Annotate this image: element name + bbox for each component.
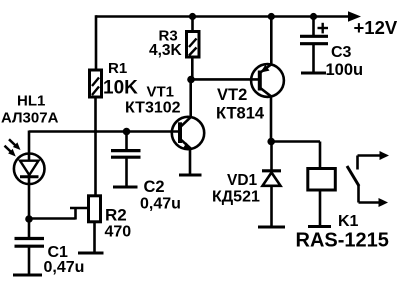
svg-text:КД521: КД521 — [212, 189, 260, 206]
svg-text:C2: C2 — [144, 178, 165, 196]
svg-text:470: 470 — [105, 224, 132, 241]
svg-text:R2: R2 — [105, 206, 127, 225]
svg-text:КТ3102: КТ3102 — [125, 100, 181, 117]
svg-text:АЛ307А: АЛ307А — [1, 110, 59, 127]
svg-text:+12V: +12V — [354, 17, 398, 38]
svg-text:10K: 10K — [103, 78, 138, 99]
svg-text:RAS-1215: RAS-1215 — [296, 230, 389, 252]
svg-text:0,47u: 0,47u — [140, 196, 181, 213]
svg-text:4,3K: 4,3K — [149, 42, 183, 59]
svg-text:100u: 100u — [326, 61, 364, 79]
svg-text:VT2: VT2 — [217, 86, 247, 104]
svg-text:C3: C3 — [331, 44, 352, 61]
svg-text:HL1: HL1 — [17, 93, 45, 110]
svg-text:K1: K1 — [338, 213, 359, 230]
svg-text:R1: R1 — [108, 60, 127, 77]
svg-text:0,47u: 0,47u — [44, 259, 85, 276]
svg-text:КТ814: КТ814 — [216, 105, 265, 123]
svg-text:VD1: VD1 — [227, 172, 258, 189]
svg-text:VT1: VT1 — [147, 84, 175, 101]
